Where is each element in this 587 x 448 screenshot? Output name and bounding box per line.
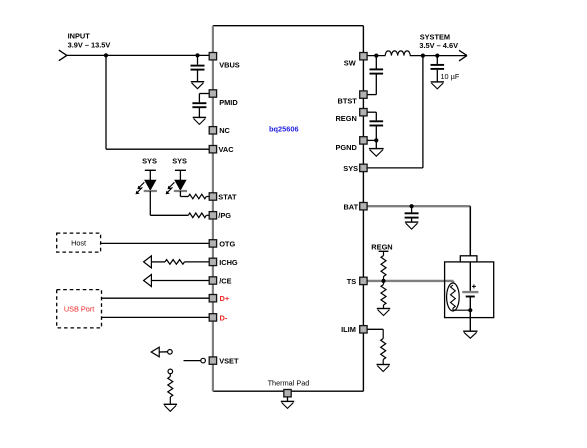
ground below C_SYS bbox=[431, 82, 444, 89]
node REGN pullup label bbox=[371, 242, 392, 251]
wire BAT rail bbox=[363, 205, 470, 207]
node SYSTEM label bbox=[419, 33, 458, 50]
svg-text:3.5V – 4.6V: 3.5V – 4.6V bbox=[419, 41, 458, 50]
pin NC bbox=[209, 126, 230, 135]
pin TS bbox=[347, 277, 367, 286]
IC U1 bq25606 body outline bbox=[213, 26, 364, 392]
SYSTEM output arrow bbox=[459, 50, 467, 61]
wire SYS feedback bbox=[363, 56, 423, 168]
pin /CE bbox=[209, 276, 231, 285]
junction SW-C_BTST bbox=[374, 54, 378, 58]
svg-text:VSET: VSET bbox=[219, 357, 239, 366]
resistor R_STAT bbox=[188, 194, 213, 199]
pin VAC bbox=[209, 145, 234, 154]
pin SYS bbox=[343, 164, 367, 173]
svg-text:SW: SW bbox=[344, 59, 356, 68]
capacitor C_PMID bbox=[192, 103, 206, 117]
svg-text:SYS: SYS bbox=[142, 157, 157, 166]
input terminal arrow bbox=[59, 50, 67, 61]
pin ICHG bbox=[209, 258, 238, 267]
pin STAT bbox=[209, 192, 237, 201]
svg-text:VAC: VAC bbox=[219, 145, 235, 154]
ground below C_BAT bbox=[405, 222, 418, 229]
ground below C_REGN bbox=[369, 149, 384, 157]
REGN power tap bar bbox=[379, 251, 389, 255]
battery pack box bbox=[445, 262, 494, 318]
svg-text:Host: Host bbox=[71, 239, 86, 248]
ICHG input arrow bbox=[144, 256, 152, 268]
SYS power tap label for LED 1 bbox=[142, 157, 157, 166]
LED D_STAT (status LED) bbox=[166, 170, 187, 194]
wire INPUT to VBUS bbox=[67, 54, 213, 56]
resistor R_ILIM bbox=[381, 339, 386, 365]
wire USB to D+ bbox=[102, 297, 213, 299]
IC part number label bq25606 bbox=[269, 124, 299, 133]
svg-text:SYS: SYS bbox=[172, 157, 187, 166]
wire REGN to C_REGN bbox=[363, 112, 376, 120]
battery cell BT1 bbox=[462, 262, 478, 331]
pin /PG bbox=[209, 211, 231, 220]
resistor R_TS_top bbox=[381, 256, 386, 281]
ground below C_PMID bbox=[193, 117, 206, 124]
svg-text:STAT: STAT bbox=[218, 192, 237, 201]
junction battery negative bbox=[468, 308, 472, 312]
pin Thermal Pad bbox=[284, 390, 291, 402]
thermistor RT1 bbox=[447, 283, 460, 311]
pin PGND bbox=[335, 137, 367, 152]
capacitor C_BTST bbox=[363, 56, 383, 95]
inductor L1 bbox=[385, 48, 410, 57]
svg-text:/PG: /PG bbox=[218, 211, 231, 220]
svg-text:D+: D+ bbox=[220, 294, 230, 303]
wire PMID to C_PMID bbox=[199, 94, 213, 103]
wire Host to OTG bbox=[101, 242, 213, 244]
/CE input arrow bbox=[144, 275, 152, 287]
ground below C_VBUS bbox=[191, 82, 204, 89]
svg-text:BAT: BAT bbox=[343, 202, 358, 211]
svg-text:TS: TS bbox=[347, 277, 357, 286]
svg-text:BTST: BTST bbox=[338, 97, 358, 106]
capacitor C_REGN bbox=[370, 121, 384, 148]
USB Port block bbox=[57, 290, 102, 328]
pin OTG bbox=[209, 239, 235, 248]
switch contact lower bbox=[168, 369, 173, 374]
junction TS bbox=[381, 279, 385, 283]
junction C_SYS bbox=[435, 54, 439, 58]
resistor R_TS_bottom bbox=[381, 281, 386, 309]
node INPUT label bbox=[68, 32, 111, 50]
wire USB to D- bbox=[102, 316, 213, 318]
wire ILIM to R_ILIM bbox=[363, 329, 383, 338]
wire input to VAC bbox=[106, 55, 213, 149]
svg-text:ILIM: ILIM bbox=[341, 325, 356, 334]
VSET option arrow bbox=[151, 347, 159, 357]
svg-text:INPUT: INPUT bbox=[68, 32, 91, 41]
ground below R_ILIM bbox=[377, 365, 390, 372]
svg-text:REGN: REGN bbox=[371, 242, 392, 251]
pin VSET bbox=[209, 357, 239, 366]
resistor R_PG bbox=[188, 213, 213, 218]
svg-text:10 µF: 10 µF bbox=[441, 72, 460, 81]
svg-text:bq25606: bq25606 bbox=[269, 124, 299, 133]
resistor R_ICHG bbox=[165, 260, 213, 265]
wire VSET stub bbox=[184, 360, 201, 362]
svg-text:D-: D- bbox=[220, 313, 228, 322]
svg-text:SYS: SYS bbox=[343, 164, 358, 173]
svg-text:VBUS: VBUS bbox=[219, 61, 240, 70]
wire junction to PGND pin bbox=[363, 139, 376, 141]
wire /CE arrow to pin bbox=[151, 280, 213, 282]
svg-text:PGND: PGND bbox=[335, 143, 357, 152]
capacitor C_BAT bbox=[405, 206, 419, 222]
Host block bbox=[57, 233, 101, 252]
pin BAT bbox=[343, 202, 367, 211]
ground below thermal pad bbox=[281, 401, 294, 408]
svg-text:USB Port: USB Port bbox=[64, 305, 94, 314]
LED D_PG (power good LED) bbox=[136, 170, 157, 194]
wire LED 2 cathode bbox=[180, 191, 188, 197]
svg-text:/CE: /CE bbox=[219, 276, 231, 285]
svg-text:PMID: PMID bbox=[219, 98, 238, 107]
wire BAT to battery pack bbox=[469, 206, 471, 256]
resistor R_VSET bbox=[168, 374, 173, 405]
svg-text:REGN: REGN bbox=[335, 114, 356, 123]
pin SW bbox=[344, 53, 367, 68]
wire SW output rail bbox=[363, 55, 467, 57]
switch contact at VSET pin bbox=[201, 358, 206, 363]
Thermal Pad label bbox=[268, 378, 310, 387]
pin D+ bbox=[209, 294, 230, 303]
pin ILIM bbox=[341, 325, 367, 334]
junction on input wire (VAC branch) bbox=[104, 53, 108, 57]
svg-text:ICHG: ICHG bbox=[219, 258, 238, 267]
battery terminal tab bbox=[460, 256, 477, 262]
value label 10 uF bbox=[441, 72, 460, 81]
junction SYS feedback bbox=[421, 54, 425, 58]
ground below battery pack bbox=[463, 331, 477, 338]
junction BAT cap bbox=[410, 204, 414, 208]
switch contact upper bbox=[168, 350, 173, 355]
pin VBUS bbox=[209, 53, 240, 70]
pin BTST bbox=[338, 91, 368, 106]
pin D- bbox=[209, 313, 228, 322]
wire TS rail bbox=[363, 281, 453, 284]
SYS power tap label for LED 2 bbox=[172, 157, 187, 166]
ground below R_VSET bbox=[164, 404, 177, 411]
pin PMID bbox=[209, 90, 238, 107]
svg-text:Thermal Pad: Thermal Pad bbox=[268, 378, 310, 387]
wire LED 1 cathode bbox=[150, 191, 188, 215]
capacitor C_VBUS bbox=[191, 55, 205, 81]
junction PGND bbox=[374, 138, 378, 142]
svg-text:NC: NC bbox=[219, 126, 230, 135]
wire arrow to contact bbox=[159, 351, 167, 353]
capacitor C_SYS 10uF bbox=[431, 56, 445, 82]
pin REGN bbox=[335, 109, 367, 124]
svg-text:OTG: OTG bbox=[219, 239, 235, 248]
svg-text:3.9V – 13.5V: 3.9V – 13.5V bbox=[68, 41, 111, 50]
wire arrow to R_ICHG bbox=[151, 261, 165, 263]
wire thermistor to cell bbox=[453, 308, 470, 310]
junction on input wire (VBUS cap branch) bbox=[195, 53, 199, 57]
ground below R_TS_bottom bbox=[377, 309, 390, 316]
